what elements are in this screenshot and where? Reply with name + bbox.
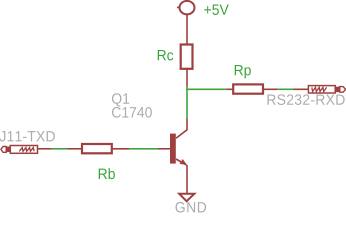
net N$1 vertical wire	[186, 87, 188, 119]
Q1 base pin	[158, 148, 171, 150]
resistor Rb	[82, 144, 112, 153]
Rp label	[235, 65, 251, 78]
left connector pin wire	[38, 148, 52, 150]
right connector pin wire	[293, 88, 308, 90]
Rb left pin	[67, 148, 81, 150]
transistor Q1 body bar	[170, 134, 176, 164]
ground GND symbol	[179, 194, 194, 202]
connector J11-TXD pad	[1, 146, 38, 154]
Rb right pin	[113, 148, 130, 150]
+5V label	[204, 4, 228, 14]
Q1 collector pin	[176, 119, 187, 139]
Rp right pin	[264, 88, 278, 90]
net base wire	[129, 148, 158, 150]
connector RS232-RXD pad	[308, 86, 345, 93]
Rc bottom pin	[186, 69, 188, 87]
RS232-RXD label	[267, 94, 344, 105]
net RS232-RXD wire	[278, 88, 294, 90]
GND label	[176, 202, 207, 213]
wire emitter to GND	[186, 165, 188, 193]
Q1 emitter pin with arrow	[176, 159, 187, 165]
C1740 value label	[112, 107, 152, 118]
Rb label	[99, 168, 115, 179]
J11-TXD label	[0, 131, 55, 141]
Rc label	[158, 50, 174, 60]
net N$1 horizontal wire	[186, 88, 226, 90]
Rp left pin	[227, 88, 233, 90]
net J11-TXD wire	[52, 148, 68, 150]
supply +5V symbol	[180, 1, 195, 14]
wire supply to Rc	[186, 15, 188, 44]
resistor Rc	[181, 45, 193, 69]
resistor Rp	[233, 84, 263, 93]
Q1 label	[112, 93, 129, 106]
